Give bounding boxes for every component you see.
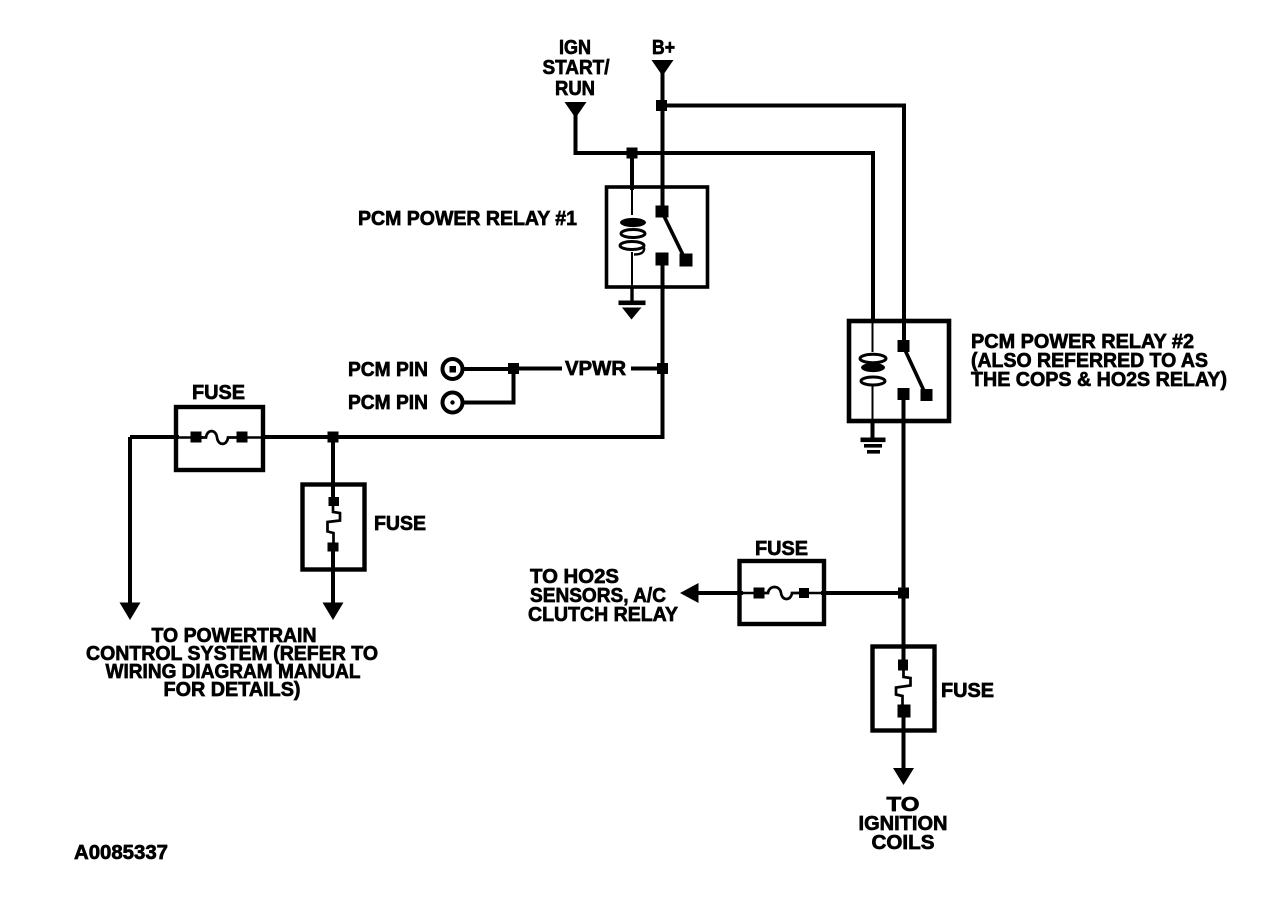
fuse F2 box — [303, 485, 365, 570]
pin PCM PIN connector 2 — [443, 393, 463, 413]
wire PCM pin 2 to junction — [463, 367, 514, 403]
wire B+ bus to relay K2 switch — [663, 106, 905, 323]
node IGN START/RUN label — [543, 37, 610, 100]
svg-text:FUSE: FUSE — [374, 513, 426, 535]
arrow to powertrain control system 2 — [323, 603, 344, 621]
svg-text:CLUTCH RELAY: CLUTCH RELAY — [528, 604, 679, 626]
ground relay K1 — [619, 301, 646, 320]
svg-text:B+: B+ — [652, 37, 675, 59]
wire relay K1 coil to ground — [630, 288, 633, 302]
wire inside fuse F3 left — [741, 592, 764, 595]
wire HO2S arrow to fuse F3 — [697, 591, 743, 595]
fuse F3 box — [740, 561, 825, 624]
relay K2 box — [849, 321, 949, 421]
wire inside fuse F1 right — [236, 436, 262, 439]
wire inside fuse F3 right — [798, 592, 823, 595]
wire relay K2 coil to ground — [871, 421, 875, 439]
label to powertrain control system — [86, 625, 378, 701]
ground relay K2 — [861, 438, 886, 454]
svg-text:IGN: IGN — [559, 37, 591, 59]
wire fuse F2 branch down — [331, 437, 335, 502]
svg-text:FUSE: FUSE — [941, 680, 994, 702]
svg-text:FUSE: FUSE — [755, 538, 808, 560]
arrow to HO2S sensors — [680, 583, 699, 603]
relay K1 coil — [620, 189, 646, 288]
pin PCM PIN connector 1 — [443, 359, 463, 379]
svg-text:A0085337: A0085337 — [74, 842, 168, 864]
wire junction to VPWR label — [514, 367, 563, 371]
wire IGN bus to relay K2 coil — [574, 153, 874, 322]
junction IGN bus to relay K1 coil — [627, 148, 638, 159]
wire IGN stem — [574, 112, 578, 155]
junction VPWR — [657, 363, 668, 374]
wire fuse F3 to relay K2 output — [821, 591, 906, 595]
fuse F1 box — [176, 407, 263, 470]
relay K1 switch — [656, 206, 693, 267]
fuse F4 element — [896, 660, 911, 718]
power terminal B+ connector — [652, 60, 674, 76]
fuse F2 element — [328, 497, 341, 552]
svg-text:FOR DETAILS): FOR DETAILS) — [164, 679, 301, 701]
wire VPWR label to relay K1 output — [631, 367, 664, 371]
power terminal IGN START/RUN connector — [565, 102, 587, 118]
wire relay K1 switch output VPWR — [661, 259, 665, 439]
fuse F3 element — [754, 587, 810, 599]
wire relay K2 switch output — [902, 394, 906, 665]
relay K2 coil — [860, 322, 886, 421]
arrow to powertrain control system — [120, 603, 141, 621]
svg-text:VPWR: VPWR — [565, 358, 627, 380]
junction fuse F2 branch — [328, 432, 339, 443]
svg-text:RUN: RUN — [555, 78, 595, 100]
label to ignition coils — [859, 794, 948, 854]
wire relay K1 coil feed — [630, 153, 634, 190]
svg-text:START/: START/ — [543, 57, 610, 79]
relay K1 box — [607, 187, 708, 287]
wire fuse F1 to relay K1 output — [261, 435, 664, 439]
svg-text:PCM POWER RELAY #1: PCM POWER RELAY #1 — [358, 208, 577, 230]
svg-text:THE COPS & HO2S RELAY): THE COPS & HO2S RELAY) — [971, 369, 1227, 391]
label to HO2S sensors — [528, 566, 679, 626]
wire B+ to relay K1 switch — [661, 105, 665, 211]
wire PCM pin 1 to junction — [463, 367, 516, 371]
relay K2 switch — [898, 321, 933, 401]
arrow to ignition coils — [893, 768, 914, 785]
junction HO2S branch — [898, 588, 909, 599]
relay K2 label — [971, 331, 1227, 391]
wire left branch down — [128, 437, 132, 606]
svg-text:COILS: COILS — [872, 832, 935, 854]
wire fuse F4 to arrow — [902, 710, 906, 772]
fuse F4 box — [873, 647, 935, 731]
fuse F1 element — [191, 431, 248, 444]
wire fuse F2 to arrow — [331, 545, 335, 606]
svg-text:PCM PIN: PCM PIN — [348, 359, 428, 381]
wire B+ stem — [661, 73, 665, 107]
wire inside fuse F1 left — [177, 436, 203, 439]
svg-text:PCM PIN: PCM PIN — [348, 392, 428, 414]
svg-text:FUSE: FUSE — [192, 382, 245, 404]
junction PCM pins — [508, 363, 519, 374]
wire main bus to fuse F1 — [130, 435, 179, 439]
junction B+ bus — [656, 100, 667, 111]
